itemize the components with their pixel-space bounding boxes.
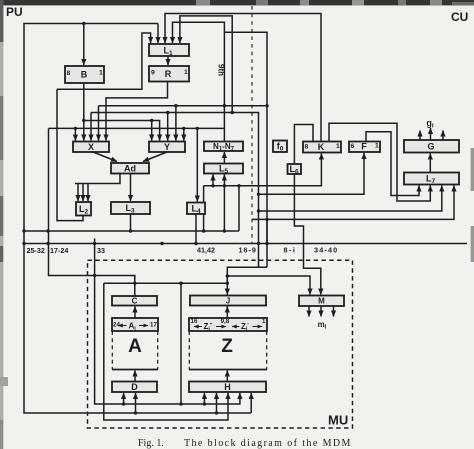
svg-text:1: 1 xyxy=(336,143,340,150)
svg-text:9: 9 xyxy=(151,70,155,77)
svg-text:A: A xyxy=(128,336,142,357)
svg-text:C: C xyxy=(132,297,138,306)
svg-text:1: 1 xyxy=(184,69,188,76)
svg-text:8: 8 xyxy=(305,144,309,151)
svg-text:gi: gi xyxy=(426,118,434,130)
svg-text:Fig. 1.: Fig. 1. xyxy=(138,438,164,449)
svg-text:8-i: 8-i xyxy=(284,246,297,255)
svg-text:Ad: Ad xyxy=(124,164,136,174)
svg-text:1: 1 xyxy=(99,70,103,77)
svg-text:17-24: 17-24 xyxy=(50,246,68,255)
svg-text:41,42: 41,42 xyxy=(197,246,215,255)
svg-text:B: B xyxy=(81,70,88,80)
svg-text:G: G xyxy=(427,142,434,152)
svg-text:The block diagram of the MDM: The block diagram of the MDM xyxy=(184,438,352,449)
svg-text:PU: PU xyxy=(6,5,23,19)
svg-text:J: J xyxy=(226,297,230,306)
svg-text:8: 8 xyxy=(67,70,71,77)
svg-text:R: R xyxy=(165,69,172,79)
svg-text:MU: MU xyxy=(328,413,348,428)
svg-text:K: K xyxy=(318,142,325,152)
svg-text:33: 33 xyxy=(97,246,105,255)
svg-text:16-9: 16-9 xyxy=(239,246,257,255)
svg-text:H: H xyxy=(224,382,231,392)
svg-text:16: 16 xyxy=(191,318,198,325)
svg-text:F: F xyxy=(361,142,367,152)
svg-text:Y: Y xyxy=(164,142,170,152)
svg-text:mi: mi xyxy=(318,320,327,331)
svg-text:1: 1 xyxy=(375,143,379,150)
svg-text:25-32: 25-32 xyxy=(27,246,45,255)
svg-text:Z: Z xyxy=(221,336,233,357)
svg-text:D: D xyxy=(131,382,138,392)
svg-text:34-40: 34-40 xyxy=(314,246,338,255)
svg-text:6: 6 xyxy=(351,143,355,150)
svg-text:1: 1 xyxy=(262,318,266,325)
svg-text:CU: CU xyxy=(451,10,468,24)
svg-text:24: 24 xyxy=(113,322,120,329)
svg-text:17: 17 xyxy=(150,322,157,329)
svg-text:X: X xyxy=(88,142,94,152)
svg-text:M: M xyxy=(318,297,325,306)
svg-text:9,8: 9,8 xyxy=(221,318,230,325)
